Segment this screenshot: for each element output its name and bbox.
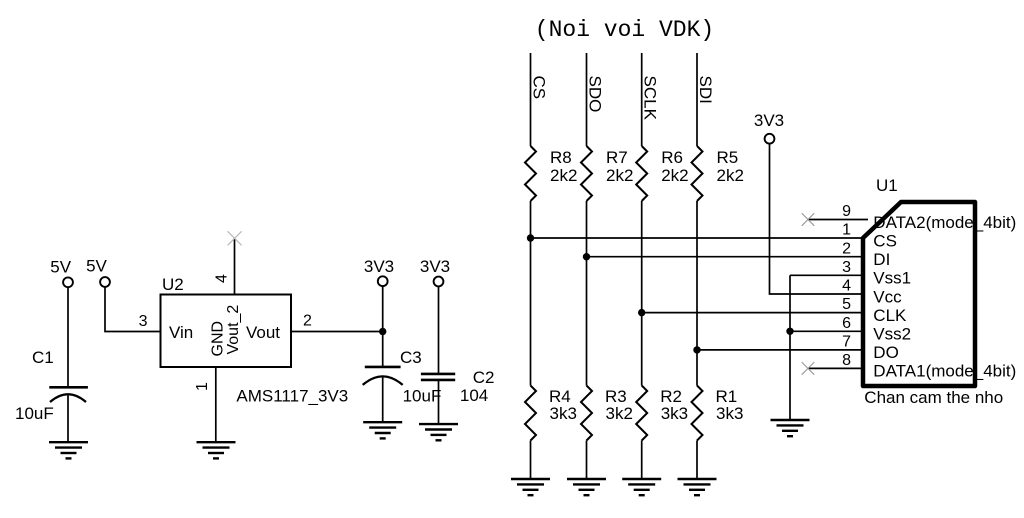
svg-text:DATA2(mode_4bit): DATA2(mode_4bit) [873, 213, 1016, 232]
net CS vertical wire [530, 53, 532, 479]
wire 5V to U2 pin 3 [105, 287, 161, 332]
svg-text:DATA1(mode_4bit): DATA1(mode_4bit) [873, 362, 1016, 381]
wire 3V3 to U1 pin 4 [770, 143, 864, 294]
wire C1 to ground [67, 395, 69, 442]
svg-text:3V3: 3V3 [364, 257, 394, 276]
wire 5V terminal to C1 [67, 287, 69, 386]
svg-text:5V: 5V [86, 257, 107, 276]
resistor R1 [692, 386, 703, 441]
svg-text:C3: C3 [400, 348, 422, 367]
svg-text:SDI: SDI [696, 76, 715, 104]
node junction on SDI [693, 346, 700, 353]
SD card connector U1 body [863, 202, 975, 386]
svg-text:R5: R5 [717, 148, 739, 167]
svg-text:Vin: Vin [169, 323, 193, 342]
svg-text:2: 2 [303, 313, 312, 330]
svg-text:CS: CS [530, 76, 549, 100]
svg-text:1: 1 [842, 222, 851, 239]
svg-text:R6: R6 [661, 148, 683, 167]
svg-text:4: 4 [842, 278, 851, 295]
wire U1 pin 6 Vss2 [790, 330, 863, 332]
resistor R2 [636, 386, 647, 441]
svg-text:R7: R7 [606, 148, 628, 167]
ground (C1) [49, 442, 88, 458]
power terminal 5V (U2 input) [100, 277, 110, 287]
svg-text:DI: DI [873, 250, 890, 269]
resistor R6 [636, 146, 647, 201]
svg-text:2: 2 [842, 240, 851, 257]
svg-text:104: 104 [460, 386, 488, 405]
svg-text:3k3: 3k3 [661, 404, 688, 423]
node junction 3V3 rail [379, 328, 386, 335]
node junction Vss2 [786, 328, 793, 335]
svg-text:3k2: 3k2 [606, 404, 633, 423]
svg-text:CLK: CLK [873, 306, 907, 325]
svg-text:10uF: 10uF [403, 387, 442, 406]
regulator U2 body [161, 295, 292, 368]
wire CS net to U1 pin 1 [531, 237, 864, 239]
svg-text:3: 3 [139, 313, 148, 330]
power terminal 3V3 (C3) [378, 276, 388, 286]
svg-text:3V3: 3V3 [754, 111, 784, 130]
svg-text:Vss1: Vss1 [873, 269, 911, 288]
svg-text:8: 8 [842, 352, 851, 369]
ground (SCLK pulldown R2) [622, 479, 661, 495]
svg-text:Vcc: Vcc [873, 287, 902, 306]
svg-text:Vout: Vout [246, 323, 280, 342]
wire U2 pin 2 to 3V3 node [291, 331, 383, 333]
svg-text:3k3: 3k3 [716, 404, 743, 423]
wire 3V3 to C2 [438, 286, 440, 374]
net SDO vertical wire [586, 53, 588, 479]
no-connect X (U1 pin 8) [802, 362, 815, 375]
power terminal 3V3 (C2) [434, 277, 444, 287]
svg-text:5V: 5V [50, 258, 71, 277]
svg-text:1: 1 [194, 382, 211, 391]
svg-text:AMS1117_3V3: AMS1117_3V3 [236, 387, 348, 406]
resistor R7 [581, 146, 592, 201]
svg-text:GND: GND [210, 321, 227, 357]
capacitor C2 [421, 374, 455, 380]
svg-text:Vss2: Vss2 [873, 325, 911, 344]
resistor R8 [525, 146, 536, 201]
svg-text:4: 4 [214, 274, 231, 283]
svg-text:10uF: 10uF [15, 404, 54, 423]
svg-text:U2: U2 [162, 275, 184, 294]
svg-text:Chan cam the nho: Chan cam the nho [864, 388, 1003, 407]
svg-text:SDO: SDO [586, 76, 605, 113]
node junction on SCLK [638, 309, 645, 316]
svg-text:C2: C2 [473, 368, 495, 387]
svg-text:C1: C1 [32, 348, 54, 367]
ground (C3) [363, 422, 402, 438]
svg-text:3k3: 3k3 [550, 404, 577, 423]
no-connect X (U2 pin 4) [228, 231, 242, 245]
wire C3 to ground [382, 378, 384, 423]
node junction on SDO [583, 253, 590, 260]
wire SDI net to U1 pin 7 [697, 349, 863, 351]
capacitor C1 [49, 387, 88, 402]
wire SDO net to U1 pin 2 [587, 256, 864, 258]
ground (SDI pulldown R1) [678, 479, 717, 495]
svg-text:U1: U1 [876, 176, 898, 195]
ground (SDO pulldown R3) [567, 479, 606, 495]
power terminal 3V3 (U1 Vcc) [765, 134, 775, 144]
svg-text:DO: DO [873, 343, 899, 362]
svg-text:9: 9 [842, 203, 851, 220]
svg-text:2k2: 2k2 [550, 166, 577, 185]
ground (C2) [419, 424, 458, 440]
svg-text:2k2: 2k2 [606, 166, 633, 185]
ground (CS pulldown R4) [511, 479, 550, 495]
svg-text:Vout_2: Vout_2 [225, 305, 242, 355]
power terminal 5V (input rail) [63, 277, 73, 287]
wire SCLK net to U1 pin 5 [642, 312, 863, 314]
wire 3V3 down through node to C3 [382, 286, 384, 366]
wire C2 to ground [438, 380, 440, 424]
ground (U2 pin 1) [197, 442, 236, 458]
wire Vss vertical to ground [789, 275, 791, 420]
svg-text:3: 3 [842, 259, 851, 276]
capacitor C3 [363, 367, 403, 385]
ground (U1 Vss) [771, 420, 810, 436]
svg-text:3V3: 3V3 [420, 257, 450, 276]
wire U2 pin 1 to ground [215, 367, 217, 442]
svg-text:R8: R8 [550, 148, 572, 167]
svg-text:5: 5 [842, 296, 851, 313]
svg-text:6: 6 [842, 315, 851, 332]
wire U1 pin 3 Vss1 [790, 274, 863, 276]
net SDI vertical wire [696, 53, 698, 479]
svg-text:2k2: 2k2 [717, 166, 744, 185]
node junction on CS [527, 234, 534, 241]
resistor R3 [581, 386, 592, 441]
svg-text:7: 7 [842, 334, 851, 351]
resistor R5 [692, 146, 703, 201]
resistor R4 [525, 386, 536, 441]
wire U2 pin 4 (unconnected) [234, 238, 236, 294]
net SCLK vertical wire [641, 53, 643, 479]
no-connect X (U1 pin 9) [802, 213, 815, 226]
svg-text:2k2: 2k2 [661, 166, 688, 185]
svg-text:(Noi voi VDK): (Noi voi VDK) [535, 17, 714, 43]
svg-text:CS: CS [873, 231, 897, 250]
svg-text:SCLK: SCLK [641, 76, 660, 121]
wire U1 pin 9 stub (unconnected) [808, 219, 868, 221]
wire U1 pin 8 stub (unconnected) [808, 367, 863, 369]
